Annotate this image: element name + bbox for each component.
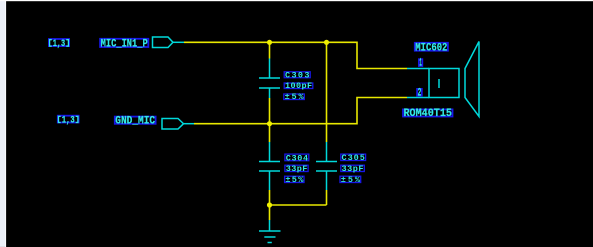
svg-text:33pF: 33pF <box>286 164 308 174</box>
svg-text:ROM40T15: ROM40T15 <box>404 108 453 120</box>
svg-text:1: 1 <box>419 58 422 70</box>
svg-text:C305: C305 <box>342 153 365 163</box>
svg-text:C303: C303 <box>285 70 310 80</box>
svg-text:C304: C304 <box>286 153 308 163</box>
svg-text:MIC602: MIC602 <box>415 42 447 54</box>
svg-text:GND_MIC: GND_MIC <box>115 116 155 128</box>
svg-text:±5%: ±5% <box>285 92 305 102</box>
svg-text:MIC_IN1_P: MIC_IN1_P <box>101 39 149 51</box>
svg-text:1,3: 1,3 <box>62 116 75 127</box>
svg-text:2: 2 <box>418 87 422 99</box>
svg-text:±5%: ±5% <box>341 175 361 185</box>
svg-text:±5%: ±5% <box>285 175 304 185</box>
svg-text:100pF: 100pF <box>285 81 312 91</box>
svg-text:33pF: 33pF <box>342 164 364 174</box>
svg-text:1,3: 1,3 <box>53 39 65 50</box>
